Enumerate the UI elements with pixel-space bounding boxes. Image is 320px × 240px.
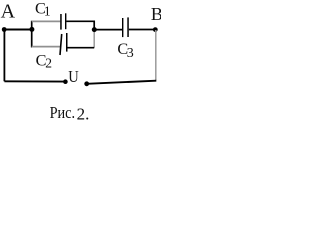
wire A to left junction (4, 29, 32, 31)
wire to C2 left (gray) (32, 46, 61, 48)
svg-text:B: B (151, 4, 161, 24)
wire C3 to node B (129, 29, 156, 31)
capacitor C1 left plate (60, 14, 62, 30)
wire C1 right to right bar (66, 20, 95, 22)
wire to C1 left (gray) (32, 20, 61, 22)
wire C2 right to right bar (68, 47, 95, 49)
svg-text:A: A (1, 1, 16, 23)
wire right junction to C3 (94, 29, 122, 31)
node B junction dot (153, 27, 158, 32)
wire right bar lower (gray) (93, 30, 95, 48)
capacitor C1 right plate (65, 13, 66, 29)
left terminal dot (63, 79, 68, 84)
wire left rail (3, 30, 5, 82)
svg-text:3: 3 (127, 46, 134, 61)
wire bottom right segment (87, 81, 157, 84)
right terminal dot (84, 81, 89, 86)
svg-text:U: U (68, 67, 79, 86)
capacitor C3 right plate (127, 17, 129, 37)
left junction dot (29, 27, 34, 32)
wire right bar upper (black) (93, 21, 95, 30)
capacitor C2 left plate (60, 34, 62, 55)
wire left junction vertical bar (31, 21, 33, 48)
svg-text:1: 1 (44, 4, 51, 19)
capacitor C3 left plate (122, 18, 123, 37)
right junction dot (92, 27, 97, 32)
wire bottom left segment (4, 80, 65, 82)
node A junction dot (2, 27, 7, 32)
svg-text:Рис.: Рис. (50, 103, 76, 122)
svg-text:2.: 2. (77, 104, 90, 122)
svg-text:2: 2 (45, 56, 52, 71)
capacitor C2 right plate (66, 33, 68, 52)
wire right rail (gray) (155, 30, 157, 80)
